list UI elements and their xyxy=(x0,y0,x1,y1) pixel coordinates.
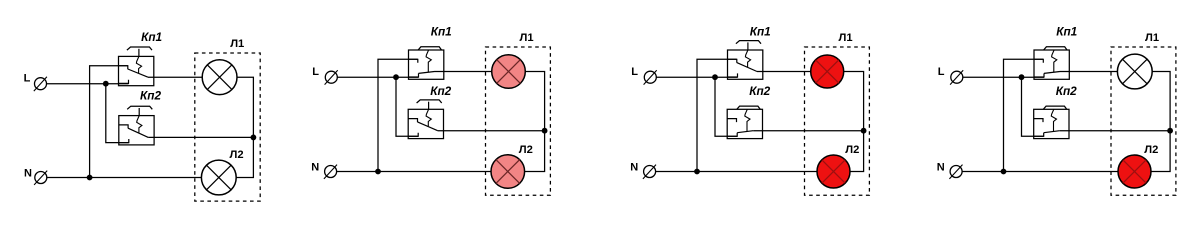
wire L (panel 2) xyxy=(337,76,418,78)
wire Kn1 top contact to N (panel 2) xyxy=(378,59,418,171)
svg-text:N: N xyxy=(24,168,32,180)
dashed lamp group box (panel 1) xyxy=(195,53,260,201)
wire L (panel 4) xyxy=(963,76,1044,78)
wire Kn1 top contact to N (panel 4) xyxy=(1004,59,1044,171)
push-button Kn1 spring (panel 2) xyxy=(426,50,431,72)
push-button Kn1 bottom contact (panel 1) xyxy=(119,80,129,84)
svg-text:N: N xyxy=(937,162,945,174)
wire Kn1 to lamp L1 (panel 3) xyxy=(757,71,811,73)
push-button Kn2 bottom contact (panel 2) xyxy=(408,133,418,137)
wire lamp L1 to node (panel 3) xyxy=(844,72,864,131)
push-button Kn1 top contact (panel 4) xyxy=(1034,59,1043,63)
terminal L (panel 1) xyxy=(35,78,47,90)
push-button Kn2 bottom contact (panel 1) xyxy=(119,139,129,143)
push-button Kn1 button cap (panel 4) xyxy=(1044,47,1067,50)
node on L wire (panel 1) xyxy=(103,81,109,87)
terminal N (panel 3) xyxy=(644,166,656,178)
wire Kn1 top contact to N (panel 1) xyxy=(90,66,128,178)
push-button Kn2 button cap (panel 3) xyxy=(737,106,760,109)
svg-text:Кп2: Кп2 xyxy=(140,89,161,103)
svg-text:Кп2: Кп2 xyxy=(1056,84,1077,98)
push-button Kn1 button cap (panel 1) xyxy=(127,47,152,50)
node on L wire (panel 4) xyxy=(1019,74,1025,80)
push-button Kn1 body (panel 3) xyxy=(728,50,763,79)
wire lamp L1 to node (panel 2) xyxy=(525,72,544,131)
svg-text:Л2: Л2 xyxy=(230,149,244,161)
wire Kn1 to lamp L1 (panel 2) xyxy=(435,71,492,73)
push-button Kn2 spring (panel 2) xyxy=(426,109,431,126)
svg-text:L: L xyxy=(24,73,31,85)
lamp L2 (panel 4) xyxy=(1118,155,1151,188)
wire L (panel 1) xyxy=(47,83,129,85)
svg-text:L: L xyxy=(312,66,319,78)
push-button Kn2 spring (panel 4) xyxy=(1051,109,1056,131)
push-button Kn1 body (panel 4) xyxy=(1034,50,1069,79)
push-button Kn2 body (panel 4) xyxy=(1034,109,1069,138)
wire node to lamp L2 (panel 2) xyxy=(525,131,545,172)
svg-text:Л1: Л1 xyxy=(520,32,534,44)
terminal N (panel 1) xyxy=(35,172,47,184)
wire L (panel 3) xyxy=(656,76,737,78)
terminal N (panel 2) xyxy=(325,166,337,178)
push-button Kn1 spring (panel 4) xyxy=(1052,50,1057,72)
push-button Kn1 bottom contact (panel 3) xyxy=(728,73,738,77)
dashed lamp group box (panel 2) xyxy=(486,47,551,195)
node on N wire (panel 3) xyxy=(694,169,700,175)
wire Kn2 to node (panel 3) xyxy=(753,130,863,132)
wire N (panel 1) xyxy=(47,177,202,179)
lamp L1 (panel 2) xyxy=(492,55,526,89)
wire N (panel 4) xyxy=(962,171,1118,173)
push-button Kn2 top contact (panel 3) xyxy=(727,119,736,123)
push-button Kn1 bottom contact (panel 4) xyxy=(1034,73,1044,77)
wire lamp L1 to node (panel 1) xyxy=(237,77,253,137)
node on L wire (panel 3) xyxy=(712,74,718,80)
push-button Kn1 spring (panel 3) xyxy=(745,50,750,67)
node lamps junction (panel 1) xyxy=(251,135,257,141)
push-button Kn1 body (panel 1) xyxy=(119,56,154,85)
dashed lamp group box (panel 3) xyxy=(805,47,870,195)
wire Kn2 to node (panel 1) xyxy=(148,136,253,138)
push-button Kn1 stem (panel 3) xyxy=(747,42,749,50)
push-button Kn1 top contact (panel 3) xyxy=(728,59,737,63)
push-button Kn2 body (panel 1) xyxy=(119,116,154,145)
push-button Kn1 blade (panel 4) xyxy=(1044,72,1060,74)
node on N wire (panel 1) xyxy=(87,175,93,181)
node lamps junction (panel 2) xyxy=(542,128,548,134)
svg-text:N: N xyxy=(630,162,638,174)
push-button Kn2 button cap (panel 1) xyxy=(127,106,152,109)
push-button Kn2 stem (panel 1) xyxy=(138,108,140,116)
push-button Kn2 blade (panel 2) xyxy=(418,122,438,131)
push-button Kn2 spring (panel 1) xyxy=(137,116,142,133)
lamp L2 (panel 1) xyxy=(201,160,236,195)
wire L node to Kn2 (panel 4) xyxy=(1022,77,1044,136)
terminal L (panel 3) xyxy=(644,71,656,83)
push-button Kn2 button cap (panel 4) xyxy=(1043,106,1066,109)
node lamps junction (panel 4) xyxy=(1167,128,1173,134)
svg-text:Кп1: Кп1 xyxy=(1056,25,1077,39)
push-button Kn1 spring (panel 1) xyxy=(136,56,141,73)
push-button Kn2 top contact (panel 1) xyxy=(119,125,128,128)
push-button Kn2 blade (panel 3) xyxy=(737,131,753,133)
svg-text:Кп1: Кп1 xyxy=(431,25,452,39)
wire node to lamp L2 (panel 3) xyxy=(850,131,864,172)
push-button Kn2 bottom contact (panel 4) xyxy=(1034,133,1044,137)
svg-text:Л2: Л2 xyxy=(519,144,533,156)
wire Kn2 to node (panel 2) xyxy=(438,130,545,132)
wire L node to Kn2 (panel 3) xyxy=(715,77,737,136)
svg-text:Л1: Л1 xyxy=(1145,32,1159,44)
push-button Kn1 blade (panel 2) xyxy=(419,72,435,74)
lamp L1 (panel 4) xyxy=(1117,54,1152,89)
push-button Kn2 blade (panel 4) xyxy=(1044,131,1060,133)
wire Kn1 to lamp L1 (panel 4) xyxy=(1060,71,1117,73)
wire L node to Kn2 (panel 1) xyxy=(106,84,129,143)
push-button Kn2 top contact (panel 4) xyxy=(1034,119,1043,123)
svg-text:Л1: Л1 xyxy=(839,32,853,44)
push-button Kn1 stem (panel 1) xyxy=(138,49,140,57)
svg-text:L: L xyxy=(631,66,638,78)
push-button Kn1 top contact (panel 2) xyxy=(409,59,418,63)
wire N (panel 2) xyxy=(337,171,491,173)
wire Kn1 to lamp L1 (panel 1) xyxy=(148,76,202,78)
node on N wire (panel 4) xyxy=(1001,169,1007,175)
terminal L (panel 2) xyxy=(325,71,337,83)
push-button Kn1 body (panel 2) xyxy=(409,50,444,79)
wire Kn1 top contact to N (panel 3) xyxy=(697,59,737,171)
lamp L2 (panel 3) xyxy=(817,155,850,188)
node on N wire (panel 2) xyxy=(375,169,381,175)
svg-text:Кп2: Кп2 xyxy=(430,84,451,98)
push-button Kn2 button cap (panel 2) xyxy=(417,100,442,103)
dashed lamp group box (panel 4) xyxy=(1111,47,1176,195)
wire Kn2 to node (panel 4) xyxy=(1060,130,1170,132)
wire node to lamp L2 (panel 4) xyxy=(1151,131,1170,172)
push-button Kn2 top contact (panel 2) xyxy=(408,119,417,123)
svg-text:Л2: Л2 xyxy=(845,144,859,156)
push-button Kn2 blade (panel 1) xyxy=(128,128,148,137)
push-button Kn2 spring (panel 3) xyxy=(745,109,750,131)
push-button Kn1 button cap (panel 2) xyxy=(418,47,441,50)
lamp L1 (panel 3) xyxy=(811,55,844,88)
node lamps junction (panel 3) xyxy=(861,128,867,134)
push-button Kn2 body (panel 3) xyxy=(727,109,762,138)
push-button Kn1 button cap (panel 3) xyxy=(736,41,761,44)
wire L node to Kn2 (panel 2) xyxy=(396,77,418,136)
wire lamp L1 to node (panel 4) xyxy=(1152,72,1170,131)
lamp L1 (panel 1) xyxy=(202,60,237,95)
svg-text:Кп1: Кп1 xyxy=(141,30,162,44)
svg-text:L: L xyxy=(938,66,945,78)
svg-text:Л1: Л1 xyxy=(230,38,244,50)
push-button Kn2 bottom contact (panel 3) xyxy=(727,133,737,137)
svg-text:N: N xyxy=(311,162,319,174)
push-button Kn1 bottom contact (panel 2) xyxy=(409,73,419,77)
push-button Kn2 stem (panel 2) xyxy=(428,102,430,110)
svg-text:Кп1: Кп1 xyxy=(750,25,771,39)
wire N (panel 3) xyxy=(656,171,817,173)
node on L wire (panel 2) xyxy=(393,74,399,80)
push-button Kn1 top contact (panel 1) xyxy=(119,66,128,70)
svg-text:Л2: Л2 xyxy=(1144,144,1158,156)
push-button Kn1 blade (panel 3) xyxy=(737,63,757,72)
push-button Kn1 blade (panel 1) xyxy=(128,69,148,77)
terminal N (panel 4) xyxy=(950,166,962,178)
terminal L (panel 4) xyxy=(951,71,963,83)
lamp L2 (panel 2) xyxy=(491,155,525,189)
svg-text:Кп2: Кп2 xyxy=(749,84,770,98)
wire node to lamp L2 (panel 1) xyxy=(236,137,253,177)
push-button Kn2 body (panel 2) xyxy=(408,109,443,138)
